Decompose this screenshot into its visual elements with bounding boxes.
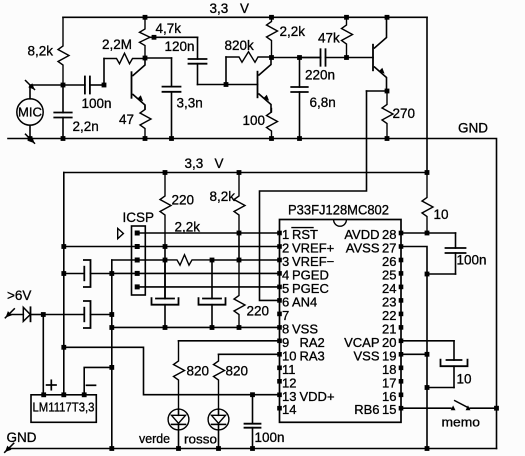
- pin ICSP 3: [135, 258, 140, 263]
- node Q1 collector: [143, 56, 148, 61]
- mic MIC: [17, 99, 43, 125]
- svg-text:RA3: RA3: [300, 348, 325, 363]
- ic U1 P33FJ128MC802 box: [280, 220, 402, 423]
- svg-text:27: 27: [382, 240, 396, 255]
- svg-text:RB6: RB6: [354, 402, 379, 417]
- svg-text:820k: 820k: [225, 38, 255, 53]
- wire vss19: [401, 353, 427, 355]
- node Q2 collector: [269, 55, 274, 60]
- svg-text:VSS: VSS: [353, 348, 379, 363]
- ic pad pin15: [399, 406, 404, 411]
- wire vin down: [42, 315, 44, 395]
- marker ICSP pin1 triangle: [118, 228, 124, 238]
- svg-text:28: 28: [382, 227, 396, 242]
- node led rosso gnd: [216, 446, 221, 451]
- resistor R 270: [382, 91, 393, 139]
- label + plus: [47, 384, 56, 386]
- wire row8 vss: [112, 326, 280, 328]
- node 220 row3: [163, 258, 168, 263]
- connector mark gnd: [5, 443, 14, 452]
- ic pad pin24: [399, 285, 404, 290]
- svg-text:100n: 100n: [457, 253, 487, 268]
- regulator LM1117 box: [31, 395, 96, 423]
- svg-text:2,2k: 2,2k: [280, 24, 306, 39]
- ic pad pin5: [277, 285, 282, 290]
- wire row2 vref+: [64, 246, 280, 248]
- svg-text:P33FJ128MC802: P33FJ128MC802: [288, 203, 389, 218]
- svg-text:18: 18: [382, 362, 396, 377]
- transistor Q3: [372, 45, 374, 71]
- node Q3 collector rail: [385, 15, 390, 20]
- resistor R 820k: [226, 52, 272, 63]
- wire avss: [401, 247, 427, 449]
- svg-text:6,8n: 6,8n: [310, 95, 336, 110]
- svg-text:2,2k: 2,2k: [175, 220, 201, 235]
- wire memo to gnd: [470, 407, 497, 409]
- svg-text:10: 10: [457, 372, 472, 387]
- led rosso: [208, 409, 229, 430]
- svg-text:26: 26: [382, 254, 396, 269]
- resistor R 220 vdd: [160, 173, 171, 247]
- ic pad pin11: [277, 366, 282, 371]
- ic pad pin10: [277, 352, 282, 357]
- svg-text:14: 14: [282, 402, 296, 417]
- node 220 row2: [163, 244, 168, 249]
- node rail 10: [425, 170, 430, 175]
- capacitor C 6,8n: [299, 58, 301, 88]
- svg-text:2,2n: 2,2n: [73, 119, 99, 134]
- ic pad pin6: [277, 298, 282, 303]
- pin ICSP 2: [135, 244, 140, 249]
- wire collector2 right: [272, 57, 321, 59]
- svg-text:23: 23: [382, 294, 396, 309]
- node mic top junction: [61, 83, 66, 88]
- svg-text:19: 19: [382, 348, 396, 363]
- svg-text:V: V: [240, 1, 249, 16]
- pin ICSP 1: [135, 231, 140, 236]
- wire vout feed: [64, 347, 280, 394]
- svg-text:15: 15: [382, 402, 396, 417]
- node 100nvdd gnd: [250, 446, 255, 451]
- capacitor C 100n avdd: [455, 233, 457, 248]
- ic pad pin8: [277, 325, 282, 330]
- connector mark 6V input: [5, 309, 14, 318]
- terminal lm1117 vout: [61, 392, 66, 397]
- svg-text:VCAP: VCAP: [344, 335, 379, 350]
- node 100 bottom: [269, 136, 274, 141]
- capacitor C elec input filter: [43, 314, 83, 316]
- svg-text:AVSS: AVSS: [346, 240, 380, 255]
- ic pad pin21: [399, 325, 404, 330]
- node x63 row2: [61, 244, 66, 249]
- svg-text:24: 24: [382, 281, 396, 296]
- ic pad pin25: [399, 271, 404, 276]
- node led verde gnd: [176, 446, 181, 451]
- node capB right: [109, 312, 114, 317]
- node Q3 emitter: [385, 89, 390, 94]
- wire 3,3V top rail: [63, 16, 427, 18]
- node x112 gnd2: [109, 365, 114, 370]
- svg-text:ICSP: ICSP: [123, 210, 155, 225]
- resistor R 820 verde: [174, 341, 185, 409]
- node avdd 10: [425, 231, 430, 236]
- ic pad pin23: [399, 298, 404, 303]
- svg-text:memo: memo: [442, 415, 481, 430]
- svg-text:VDD+: VDD+: [300, 389, 335, 404]
- resistor R 4,7k: [140, 17, 151, 58]
- node avss junction: [425, 272, 430, 277]
- svg-text:>6V: >6V: [7, 288, 31, 303]
- wire emitter left: [367, 90, 388, 92]
- wire row6 an4 feed: [260, 91, 367, 300]
- svg-text:22: 22: [382, 308, 396, 323]
- node 47k bottom: [344, 55, 349, 60]
- ic RST overline: [292, 227, 313, 229]
- node avss gnd rail: [425, 446, 430, 451]
- ic pad pin7: [277, 312, 282, 317]
- svg-text:rosso: rosso: [184, 432, 217, 447]
- node vcap return: [425, 385, 430, 390]
- wire row10 ra3: [219, 353, 280, 355]
- pin ICSP 4: [135, 271, 140, 276]
- wire tap to 120n: [150, 36, 198, 38]
- ic pad pin9: [277, 339, 282, 344]
- node 6,8n bottom: [297, 136, 302, 141]
- ic pad pin3: [277, 258, 282, 263]
- ic pad pin27: [399, 244, 404, 249]
- svg-text:47k: 47k: [318, 31, 340, 46]
- ic notch: [334, 220, 347, 226]
- resistor R 47: [140, 106, 151, 139]
- svg-text:LM1117T3,3: LM1117T3,3: [33, 401, 95, 415]
- svg-text:3,3: 3,3: [210, 1, 229, 16]
- wire rb6: [401, 407, 451, 409]
- capacitor C 120n: [197, 37, 199, 59]
- svg-text:MIC: MIC: [18, 105, 42, 119]
- svg-text:20: 20: [382, 335, 396, 350]
- node x239 row3: [237, 258, 242, 263]
- wire vcap: [401, 340, 454, 342]
- svg-text:100n: 100n: [82, 96, 112, 111]
- wire base node up: [103, 59, 105, 86]
- svg-text:8,2k: 8,2k: [210, 189, 236, 204]
- resistor R 2,2M: [104, 53, 145, 63]
- svg-text:AVDD: AVDD: [344, 227, 379, 242]
- resistor R 8,2k mic: [58, 17, 69, 85]
- ic pad pin16: [399, 393, 404, 398]
- wire 120n to Q2 base: [198, 84, 258, 86]
- node capA right: [109, 271, 114, 276]
- capacitor C elec vref+ bypass: [164, 260, 166, 299]
- terminal lm1117 gnd: [82, 392, 87, 397]
- ic pad pin17: [399, 379, 404, 384]
- svg-text:GND: GND: [7, 430, 37, 445]
- connector ICSP box: [132, 226, 146, 295]
- wire x165 down: [164, 247, 166, 299]
- ic pad pin28: [399, 231, 404, 236]
- terminal lm1117 vin: [41, 392, 46, 397]
- capacitor C elec 10u vcap: [453, 341, 455, 360]
- node 47k rail: [344, 15, 349, 20]
- svg-text:25: 25: [382, 267, 396, 282]
- svg-text:8,2k: 8,2k: [28, 44, 54, 59]
- svg-text:17: 17: [382, 375, 396, 390]
- node 220rst vss: [237, 325, 242, 330]
- capacitor C 3,3n: [171, 58, 173, 87]
- node rail 220: [163, 170, 168, 175]
- connector mark mic bottom: [26, 134, 35, 143]
- capacitor C 220n series: [300, 57, 321, 59]
- svg-text:10: 10: [434, 207, 449, 222]
- capacitor C 100n vdd: [252, 395, 254, 424]
- switch memo: [451, 405, 456, 410]
- resistor R 10 avdd: [422, 173, 433, 234]
- ic pad pin14: [277, 406, 282, 411]
- ic pad pin12: [277, 379, 282, 384]
- svg-text:220: 220: [172, 193, 195, 208]
- svg-text:verde: verde: [139, 431, 170, 446]
- capacitor C elec vref filter: [64, 273, 84, 275]
- resistor R 47k: [342, 17, 353, 57]
- capacitor C elec vref- bypass: [211, 260, 213, 299]
- node 4,7k rail: [143, 15, 148, 20]
- node x112 vss: [109, 325, 114, 330]
- ic pad pin20: [399, 339, 404, 344]
- wire Q3 base: [347, 57, 374, 59]
- node x63 vout: [61, 345, 66, 350]
- node 4,7k tap: [152, 35, 157, 40]
- ic pad pin13: [277, 393, 282, 398]
- wire x239 down: [238, 233, 240, 260]
- node Q1 base: [102, 83, 107, 88]
- wire row9 ra2: [179, 340, 280, 342]
- transistor Q2: [257, 72, 259, 98]
- svg-text:220: 220: [247, 304, 270, 319]
- node cap1 vss: [163, 325, 168, 330]
- resistor R 100: [267, 109, 278, 139]
- svg-text:820: 820: [187, 364, 210, 379]
- ic pad pin1: [277, 231, 282, 236]
- capacitor C 100n mic coupling: [63, 84, 85, 86]
- wire Q2 base node up: [225, 57, 227, 85]
- ic pad pin18: [399, 366, 404, 371]
- wire avdd: [401, 232, 456, 234]
- wire 3,3V drop right: [426, 17, 428, 172]
- svg-text:V: V: [215, 156, 224, 171]
- svg-text:270: 270: [393, 106, 416, 121]
- node 47 bottom: [143, 136, 148, 141]
- ic pad pin4: [277, 271, 282, 276]
- node cap2 vss: [210, 325, 215, 330]
- ic pad pin22: [399, 312, 404, 317]
- svg-text:4,7k: 4,7k: [156, 21, 182, 36]
- wire row3 vref-: [112, 259, 165, 261]
- ic pad pin26: [399, 258, 404, 263]
- wire top gnd rail: [8, 139, 497, 449]
- wire 6V input: [8, 314, 23, 316]
- ic pad pin19: [399, 352, 404, 357]
- resistor R 220 rst: [234, 260, 245, 328]
- svg-text:16: 16: [382, 389, 396, 404]
- svg-text:120n: 120n: [165, 39, 195, 54]
- wire mic top lead: [30, 85, 63, 99]
- wire mic bottom lead: [29, 125, 31, 138]
- svg-text:100: 100: [243, 113, 266, 128]
- wire row4 pged: [112, 272, 280, 274]
- svg-text:3,3n: 3,3n: [177, 96, 203, 111]
- wire avss cap return: [427, 273, 456, 275]
- node 3,3n bottom: [169, 136, 174, 141]
- wire row1 rst: [137, 232, 279, 234]
- wire 3,3V lower rail: [64, 172, 427, 174]
- node x112 gnd rail: [109, 446, 114, 451]
- node memo gnd: [494, 406, 499, 411]
- svg-text:21: 21: [382, 321, 396, 336]
- node rail 8,2k: [237, 170, 242, 175]
- diode D1: [23, 307, 30, 321]
- wire lm1117 out lead: [63, 347, 65, 395]
- node cap2 row3: [210, 258, 215, 263]
- capacitor C 2,2n: [62, 85, 64, 113]
- node 6,8n top: [297, 55, 302, 60]
- node vdd row13: [250, 392, 255, 397]
- svg-text:820: 820: [226, 364, 249, 379]
- svg-text:3,3: 3,3: [185, 156, 204, 171]
- led verde: [168, 409, 189, 430]
- node x63 capA: [61, 271, 66, 276]
- svg-text:AN4: AN4: [292, 294, 317, 309]
- ic pad pin2: [277, 244, 282, 249]
- pin ICSP 5: [135, 284, 140, 289]
- node diode out: [41, 312, 46, 317]
- wire row5 pgec: [137, 286, 279, 288]
- connector mark mic top: [26, 81, 35, 90]
- svg-text:220n: 220n: [305, 68, 335, 83]
- node 2,2n bottom: [61, 136, 66, 141]
- svg-text:47: 47: [119, 112, 134, 127]
- svg-text:2,2M: 2,2M: [102, 37, 132, 52]
- resistor R 820 rosso: [214, 354, 225, 409]
- node Q2 base junction: [224, 82, 229, 87]
- svg-text:100n: 100n: [255, 430, 285, 445]
- wire gnd bottom rail: [8, 448, 497, 450]
- node 2,2k rail: [269, 15, 274, 20]
- resistor R 2,2k stage2: [267, 17, 278, 57]
- wire lm1117 gnd lead: [84, 367, 112, 394]
- transistor Q1: [131, 72, 133, 98]
- wire x112 column: [111, 260, 113, 449]
- node vss19: [425, 352, 430, 357]
- resistor R 8,2k rst: [234, 173, 245, 234]
- wire collector to 3,3n: [145, 57, 172, 59]
- svg-text:GND: GND: [458, 121, 488, 136]
- node 8,2k row1: [237, 231, 242, 236]
- wire vcap return: [427, 387, 454, 389]
- node 270 bottom: [385, 136, 390, 141]
- node mic bottom: [28, 136, 33, 141]
- label - minus: [87, 384, 96, 386]
- wire x63 column: [63, 173, 65, 348]
